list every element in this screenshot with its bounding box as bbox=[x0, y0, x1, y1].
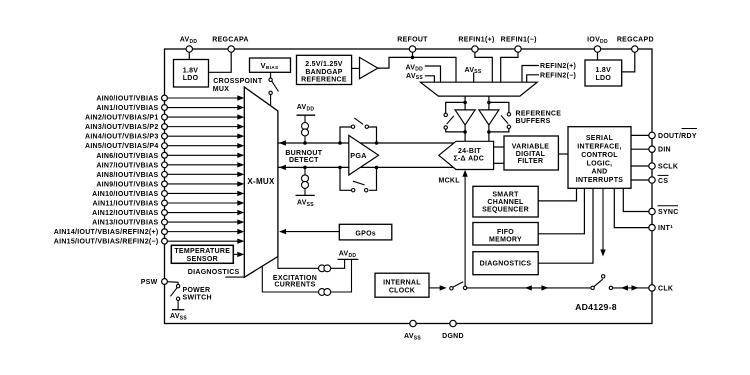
reference mux trapezoid bbox=[420, 82, 537, 96]
block GPOs bbox=[286, 231, 339, 233]
pin AIN4 input bbox=[168, 135, 238, 137]
node burnout top junction bbox=[303, 141, 307, 145]
node PGA input bottom bbox=[338, 166, 342, 170]
svg-text:GPOs: GPOs bbox=[355, 230, 376, 237]
pin AIN6 input bbox=[168, 154, 238, 156]
svg-text:POWER: POWER bbox=[183, 287, 211, 294]
pin PSW bbox=[162, 279, 168, 285]
svg-text:REFIN1(−): REFIN1(−) bbox=[501, 37, 537, 44]
svg-text:LDO: LDO bbox=[595, 75, 611, 82]
svg-text:CLOCK: CLOCK bbox=[389, 287, 415, 294]
svg-text:TEMPERATURE: TEMPERATURE bbox=[174, 248, 230, 255]
pin AIN11 input bbox=[168, 202, 238, 204]
arrow CLK bidirectional left bbox=[621, 285, 628, 290]
node right buffer output bbox=[487, 130, 491, 134]
pin REGCAPD bbox=[622, 49, 635, 72]
svg-text:BUFFERS: BUFFERS bbox=[516, 118, 551, 125]
node right buffer input bbox=[487, 101, 491, 105]
node left buffer output bbox=[463, 130, 467, 134]
svg-text:SENSOR: SENSOR bbox=[187, 256, 218, 263]
wire bottom differential line xmux to ADC bbox=[278, 166, 454, 168]
svg-text:REGCAPA: REGCAPA bbox=[212, 37, 248, 44]
wire right buffer to ADC bbox=[488, 125, 490, 141]
svg-text:AIN5/IOUT/VBIAS/P4: AIN5/IOUT/VBIAS/P4 bbox=[85, 143, 159, 150]
wire MCKL clock to ADC bbox=[464, 172, 466, 288]
svg-text:BURNOUT: BURNOUT bbox=[285, 150, 322, 157]
svg-text:AIN2/IOUT/VBIAS/P1: AIN2/IOUT/VBIAS/P1 bbox=[85, 115, 159, 122]
pin DIN bbox=[631, 148, 649, 150]
switch S8 power switch bbox=[167, 282, 178, 285]
svg-text:SEQUENCER: SEQUENCER bbox=[482, 206, 529, 213]
ground AVSS power switch bbox=[172, 309, 184, 311]
op-amp A2 reference buffer left bbox=[455, 110, 475, 125]
svg-text:CURRENTS: CURRENTS bbox=[274, 281, 315, 288]
pin AIN8 input bbox=[168, 173, 238, 175]
svg-text:INTERRUPTS: INTERRUPTS bbox=[576, 177, 624, 184]
svg-text:AIN3/IOUT/VBIAS/P2: AIN3/IOUT/VBIAS/P2 bbox=[85, 124, 159, 131]
pin AIN0 input bbox=[168, 97, 238, 99]
arrow into xmux bottom line bbox=[279, 165, 286, 170]
svg-text:AND: AND bbox=[591, 169, 607, 176]
svg-text:LDO: LDO bbox=[183, 75, 199, 82]
pin SCLK bbox=[631, 165, 649, 167]
block internal clock oscillator bbox=[375, 273, 429, 297]
svg-text:REFERENCE: REFERENCE bbox=[301, 76, 347, 83]
svg-text:MUX: MUX bbox=[213, 86, 229, 93]
svg-text:SCLK: SCLK bbox=[658, 163, 678, 170]
svg-text:DETECT: DETECT bbox=[289, 157, 319, 164]
svg-text:CROSSPOINT: CROSSPOINT bbox=[213, 78, 263, 85]
svg-text:AIN6/IOUT/VBIAS: AIN6/IOUT/VBIAS bbox=[96, 153, 158, 160]
svg-text:SWITCH: SWITCH bbox=[183, 294, 212, 301]
svg-text:CLK: CLK bbox=[658, 285, 673, 292]
svg-text:BANDGAP: BANDGAP bbox=[305, 69, 342, 76]
ADC 24-bit sigma-delta bbox=[439, 141, 494, 169]
wire left buffer to ADC bbox=[464, 125, 466, 141]
svg-text:INTERNAL: INTERNAL bbox=[383, 280, 421, 287]
pin CLK bbox=[649, 285, 655, 291]
node PGA input top bbox=[338, 141, 342, 145]
svg-text:DIAGNOSTICS: DIAGNOSTICS bbox=[480, 261, 532, 268]
svg-text:LOGIC,: LOGIC, bbox=[587, 160, 613, 167]
svg-text:PGA: PGA bbox=[350, 151, 366, 160]
svg-text:SYNC: SYNC bbox=[658, 209, 679, 216]
block VBIAS bbox=[250, 58, 291, 72]
chip outline AD4129-8 package boundary bbox=[165, 49, 653, 324]
svg-text:1.8V: 1.8V bbox=[183, 67, 199, 74]
pin AIN2 input bbox=[168, 116, 238, 118]
node REFOUT junction bbox=[411, 56, 415, 60]
svg-text:MCKL: MCKL bbox=[438, 177, 460, 184]
multiplexer X-MUX bbox=[244, 87, 278, 277]
wire buffer output to REFOUT node bbox=[378, 57, 456, 82]
svg-text:CS: CS bbox=[658, 178, 668, 185]
arrow into xmux top line bbox=[279, 140, 286, 145]
amplifier PGA bbox=[349, 135, 379, 175]
arrow clock bidirectional left bbox=[525, 285, 532, 290]
svg-text:DOUT/RDY: DOUT/RDY bbox=[658, 133, 697, 140]
svg-text:AIN10/IOUT/VBIAS: AIN10/IOUT/VBIAS bbox=[92, 191, 158, 198]
svg-text:DIN: DIN bbox=[658, 147, 671, 154]
svg-text:24-BIT: 24-BIT bbox=[458, 148, 482, 155]
node burnout bottom junction bbox=[303, 166, 307, 170]
switch S7 CLK pin gate bbox=[591, 286, 594, 289]
op-amp A1 reference buffer amp bbox=[360, 57, 378, 78]
svg-text:AIN7/IOUT/VBIAS: AIN7/IOUT/VBIAS bbox=[96, 162, 158, 169]
regulator U1 1.8V LDO analog bbox=[174, 60, 209, 88]
pin IOVDD bbox=[597, 49, 599, 60]
wire excitation bottom to AVDD bbox=[348, 259, 352, 292]
switch S3 right buffer bypass bbox=[489, 102, 509, 112]
node PGA output bottom bbox=[375, 166, 379, 170]
svg-text:REFIN2(−): REFIN2(−) bbox=[540, 73, 576, 80]
switch S6 internal clock bbox=[450, 287, 453, 290]
svg-text:AIN14/IOUT/VBIAS/REFIN2(+): AIN14/IOUT/VBIAS/REFIN2(+) bbox=[54, 229, 159, 236]
svg-text:SMART: SMART bbox=[492, 191, 519, 198]
svg-text:2.5V/1.25V: 2.5V/1.25V bbox=[305, 61, 342, 68]
current source I4 excitation bottom bbox=[319, 289, 326, 296]
svg-text:X-MUX: X-MUX bbox=[247, 177, 275, 186]
svg-text:REFIN1(+): REFIN1(+) bbox=[458, 37, 494, 44]
svg-text:AIN12/IOUT/VBIAS: AIN12/IOUT/VBIAS bbox=[92, 210, 158, 217]
svg-text:CONTROL: CONTROL bbox=[581, 152, 618, 159]
wire temp sensor to xmux bbox=[233, 253, 237, 255]
wire diagnostics to xmux bbox=[225, 276, 245, 278]
switch S4 PGA bypass top bbox=[340, 127, 351, 143]
svg-text:AIN13/IOUT/VBIAS: AIN13/IOUT/VBIAS bbox=[92, 220, 158, 227]
svg-text:FIFO: FIFO bbox=[497, 229, 514, 236]
pin SYNC bbox=[623, 188, 648, 211]
pin AIN14 input bbox=[168, 231, 238, 233]
pin INT1 bbox=[614, 188, 648, 227]
svg-text:AIN15/IOUT/VBIAS/REFIN2(−): AIN15/IOUT/VBIAS/REFIN2(−) bbox=[54, 239, 159, 246]
pin AIN13 input bbox=[168, 221, 238, 223]
svg-text:REFIN2(+): REFIN2(+) bbox=[540, 63, 576, 70]
svg-text:PSW: PSW bbox=[141, 279, 158, 286]
wire excitation current top bbox=[278, 257, 341, 269]
supply AVDD excitation bbox=[338, 258, 359, 260]
svg-text:FILTER: FILTER bbox=[518, 158, 544, 165]
wire serial logic clock control bbox=[602, 188, 604, 255]
pin DOUT/RDY bbox=[631, 134, 649, 136]
wire clock bus to CLK pin bbox=[467, 287, 591, 289]
block 2.5V/1.25V bandgap reference bbox=[297, 55, 352, 84]
current source I2 burnout bottom bbox=[304, 167, 306, 195]
pin AVDD (top left) bbox=[188, 49, 190, 60]
svg-text:INTERFACE,: INTERFACE, bbox=[577, 144, 621, 151]
pin AIN10 input bbox=[168, 192, 238, 194]
svg-text:1.8V: 1.8V bbox=[596, 67, 612, 74]
regulator U2 1.8V LDO digital bbox=[585, 60, 622, 86]
wire top differential line xmux to ADC bbox=[278, 142, 454, 144]
svg-text:DIGITAL: DIGITAL bbox=[516, 151, 546, 158]
pin REFOUT bbox=[412, 49, 414, 57]
wire ADC to filter bottom bbox=[494, 162, 504, 164]
wire bandgap to buffer bbox=[352, 67, 360, 69]
switch S5 PGA bypass bottom bbox=[340, 167, 351, 190]
block serial interface control logic and interrupts bbox=[568, 127, 631, 189]
pin CS bbox=[631, 179, 649, 181]
svg-text:AIN11/IOUT/VBIAS: AIN11/IOUT/VBIAS bbox=[93, 200, 159, 207]
svg-text:REGCAPD: REGCAPD bbox=[617, 37, 654, 44]
svg-text:DGND: DGND bbox=[442, 333, 464, 340]
current source I1 burnout top bbox=[304, 115, 306, 143]
arrow CLK bidirectional right bbox=[632, 285, 639, 290]
pin AIN3 input bbox=[168, 126, 238, 128]
node PGA output top bbox=[375, 141, 379, 145]
arrow clock bidirectional right bbox=[541, 285, 548, 290]
block diagnostics digital bbox=[538, 188, 593, 263]
pin AIN5 input bbox=[168, 145, 238, 147]
wire excitation current bottom bbox=[262, 266, 348, 292]
svg-text:AIN0/IOUT/VBIAS: AIN0/IOUT/VBIAS bbox=[96, 96, 158, 103]
wire ADC to filter top bbox=[494, 146, 504, 148]
svg-text:CHANNEL: CHANNEL bbox=[487, 199, 524, 206]
block FIFO memory bbox=[538, 188, 584, 234]
pin AIN7 input bbox=[168, 164, 238, 166]
pin REFIN1(&#8722;) bbox=[501, 49, 518, 82]
svg-text:VARIABLE: VARIABLE bbox=[512, 143, 550, 150]
svg-text:AIN1/IOUT/VBIAS: AIN1/IOUT/VBIAS bbox=[96, 105, 158, 112]
ground AVSS burnout bbox=[296, 194, 315, 196]
pin AIN1 input bbox=[168, 107, 238, 109]
wire filter to serial interface bbox=[558, 153, 568, 155]
pin AIN12 input bbox=[168, 212, 238, 214]
svg-text:MEMORY: MEMORY bbox=[489, 237, 522, 244]
node left buffer input bbox=[463, 101, 467, 105]
svg-text:REFOUT: REFOUT bbox=[397, 37, 428, 44]
wire excitation top to AVDD bbox=[341, 259, 345, 268]
svg-text:AD4129-8: AD4129-8 bbox=[575, 302, 617, 312]
svg-text:DIAGNOSTICS: DIAGNOSTICS bbox=[188, 269, 240, 276]
block variable digital filter bbox=[504, 136, 558, 170]
block smart channel sequencer bbox=[538, 188, 576, 201]
pin DGND bbox=[450, 320, 456, 326]
pin REFIN1(+) bbox=[475, 49, 492, 82]
pin REGCAPA bbox=[209, 49, 231, 72]
pin AIN15 input bbox=[168, 240, 238, 242]
wire refmux to left buffer bbox=[464, 96, 466, 110]
wire internal clock output bbox=[429, 287, 441, 289]
wire refmux to right buffer bbox=[488, 96, 490, 110]
pin AVSS bottom bbox=[410, 320, 416, 326]
pin AIN9 input bbox=[168, 183, 238, 185]
current source I3 excitation top bbox=[319, 265, 326, 272]
op-amp A3 reference buffer right bbox=[479, 110, 499, 125]
switch S2 left buffer bypass bbox=[446, 102, 465, 113]
svg-text:AIN4/IOUT/VBIAS/P3: AIN4/IOUT/VBIAS/P3 bbox=[85, 134, 159, 141]
block temperature sensor bbox=[171, 245, 233, 263]
svg-text:AIN9/IOUT/VBIAS: AIN9/IOUT/VBIAS bbox=[96, 181, 158, 188]
svg-text:REFERENCE: REFERENCE bbox=[516, 110, 562, 117]
svg-text:AIN8/IOUT/VBIAS: AIN8/IOUT/VBIAS bbox=[96, 172, 158, 179]
svg-text:SERIAL: SERIAL bbox=[586, 135, 614, 142]
switch S1 vbias to xmux bbox=[270, 72, 272, 78]
svg-text:Σ-Δ ADC: Σ-Δ ADC bbox=[453, 156, 484, 163]
